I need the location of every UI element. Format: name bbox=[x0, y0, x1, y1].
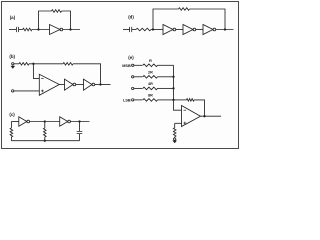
node bus-2R (e) bbox=[172, 76, 174, 78]
input terminal bit0 (e) bbox=[132, 64, 134, 66]
node A (d) bbox=[152, 28, 154, 30]
wire bottom (c) bbox=[11, 140, 79, 142]
inverter U3 (d) bbox=[203, 25, 213, 35]
inverter U3 bubble (d) bbox=[213, 28, 216, 31]
inverter U2 bubble (b) bbox=[73, 83, 76, 86]
svg-text:(a): (a) bbox=[10, 15, 16, 20]
wire summing bus (e) bbox=[174, 65, 182, 110]
inverter U1 bubble (c) bbox=[27, 120, 30, 123]
wire bit3-right (e) bbox=[158, 99, 174, 101]
ground terminal with arrow (e) bbox=[172, 138, 177, 143]
input terminal (b) bbox=[12, 90, 14, 92]
label (e) bbox=[128, 55, 134, 60]
op-amp U1 plus (b) bbox=[41, 90, 44, 93]
wire input (d) bbox=[123, 29, 130, 31]
resistor R1 (d) bbox=[136, 28, 151, 31]
label 4R (e) bbox=[148, 82, 153, 86]
wire plus-input (e) bbox=[175, 122, 182, 124]
input terminal bit2 (e) bbox=[132, 87, 134, 89]
inverter U3 (b) bbox=[84, 79, 93, 90]
wire U1-U2 (c) bbox=[30, 121, 60, 123]
wire U2-U3 (b) bbox=[76, 84, 84, 86]
label MSB (e) bbox=[122, 64, 131, 68]
wire bit0-right (e) bbox=[158, 64, 174, 66]
label (a) bbox=[10, 15, 16, 20]
wire input (a) bbox=[9, 29, 16, 31]
resistor R (e) bbox=[143, 64, 158, 67]
node A (b) bbox=[32, 63, 34, 65]
node bus-8R (e) bbox=[172, 99, 174, 101]
wire U2-U3 (d) bbox=[196, 29, 203, 31]
inverter U2 (b) bbox=[65, 79, 74, 90]
wire resistor-to-fb (b) bbox=[29, 63, 63, 65]
wire cap-to-resistor (a) bbox=[19, 29, 23, 31]
wire feedback loop (d) bbox=[153, 9, 225, 30]
resistor 4R (e) bbox=[143, 87, 158, 90]
inverter U1 bubble (a) bbox=[60, 28, 63, 31]
node A (c) bbox=[44, 120, 46, 122]
wire node-to-minus (b) bbox=[33, 64, 39, 79]
node bus-4R (e) bbox=[172, 87, 174, 89]
inverter U2 (d) bbox=[183, 25, 193, 35]
wire feedback loop (a) bbox=[39, 11, 71, 30]
wire bit0-left (e) bbox=[134, 64, 143, 66]
wire output (c) bbox=[71, 121, 90, 123]
op-amp U1 minus (e) bbox=[184, 109, 187, 111]
inverter U2 bubble (c) bbox=[68, 120, 71, 123]
wire input (c) bbox=[11, 121, 18, 123]
wire U1-U2 (d) bbox=[176, 29, 183, 31]
wire bit1-left (e) bbox=[134, 76, 143, 78]
node A (a) bbox=[37, 28, 39, 30]
resistor 8R (e) bbox=[143, 99, 158, 102]
op-amp U1 plus (e) bbox=[184, 122, 187, 125]
op-amp U1 (e) bbox=[182, 106, 201, 127]
node output (e) bbox=[203, 115, 205, 117]
wire bit1-right (e) bbox=[158, 76, 174, 78]
inverter U2 bubble (d) bbox=[193, 28, 196, 31]
node B (c) bbox=[78, 120, 80, 122]
label (b) bbox=[9, 54, 15, 59]
svg-text:4R: 4R bbox=[148, 82, 153, 86]
wire output (a) bbox=[63, 29, 80, 31]
border frame bbox=[2, 2, 239, 149]
wire fb-right-down (b) bbox=[73, 64, 101, 85]
node B (a) bbox=[69, 28, 71, 30]
wire bit2-right (e) bbox=[158, 87, 174, 89]
inverter U2 (c) bbox=[60, 117, 68, 127]
wire bit2-left (e) bbox=[134, 87, 143, 89]
svg-text:2R: 2R bbox=[148, 70, 153, 74]
wire output (d) bbox=[216, 29, 234, 31]
label 2R (e) bbox=[148, 70, 153, 74]
resistor Rf (e) bbox=[187, 99, 195, 102]
wire feedback (e) bbox=[174, 100, 205, 116]
svg-text:LSB: LSB bbox=[123, 98, 131, 102]
capacitor C (a) bbox=[16, 27, 18, 32]
inverter U3 bubble (b) bbox=[92, 83, 95, 86]
input terminal bit3 (e) bbox=[132, 99, 134, 101]
svg-text:R: R bbox=[149, 59, 152, 63]
resistor Rg vertical (e) bbox=[173, 123, 176, 138]
inverter U1 (a) bbox=[50, 25, 61, 35]
resistor R1 (b) bbox=[19, 63, 29, 66]
ground terminal with arrow (b) bbox=[11, 63, 16, 69]
resistor Rf (b) bbox=[63, 63, 73, 66]
svg-text:MSB: MSB bbox=[122, 64, 131, 68]
inverter U1 bubble (d) bbox=[173, 28, 176, 31]
op-amp U1 minus (b) bbox=[41, 77, 44, 79]
op-amp U1 (b) bbox=[39, 74, 59, 95]
wire output (b) bbox=[95, 84, 111, 86]
capacitor C (d) bbox=[130, 27, 132, 32]
svg-text:(e): (e) bbox=[128, 55, 134, 60]
svg-text:(d): (d) bbox=[128, 15, 134, 20]
svg-text:8R: 8R bbox=[148, 93, 153, 97]
label (c) bbox=[9, 112, 15, 117]
wire plus-input (b) bbox=[14, 90, 39, 92]
input terminal bit1 (e) bbox=[132, 76, 134, 78]
capacitor C1 (c) bbox=[77, 122, 83, 141]
resistor R2 vertical (c) bbox=[44, 122, 47, 141]
wire resistor-to-node (d) bbox=[151, 29, 163, 31]
svg-text:(c): (c) bbox=[9, 112, 15, 117]
inverter U1 (d) bbox=[163, 25, 173, 35]
wire cap-to-resistor (d) bbox=[132, 29, 136, 31]
wire gnd-to-resistor (b) bbox=[14, 63, 19, 65]
wire bit3-left (e) bbox=[134, 99, 143, 101]
node C bottom (c) bbox=[44, 140, 46, 142]
label (d) bbox=[128, 15, 134, 20]
wire resistor-to-amp (a) bbox=[32, 29, 50, 31]
resistor 2R (e) bbox=[143, 76, 158, 79]
node B (b) bbox=[99, 83, 101, 85]
label LSB (e) bbox=[123, 98, 131, 102]
wire output (e) bbox=[201, 115, 222, 117]
inverter U1 (c) bbox=[19, 117, 27, 127]
node B (d) bbox=[224, 28, 226, 30]
svg-text:(b): (b) bbox=[9, 54, 15, 59]
wire opamp-to-U2 (b) bbox=[59, 84, 64, 86]
label R (e) bbox=[149, 59, 152, 63]
resistor Rf (d) bbox=[179, 8, 190, 11]
resistor R1 vertical (c) bbox=[10, 122, 13, 141]
label 8R (e) bbox=[148, 93, 153, 97]
resistor Rf (a) bbox=[52, 10, 62, 13]
resistor R1 (a) bbox=[23, 28, 32, 31]
